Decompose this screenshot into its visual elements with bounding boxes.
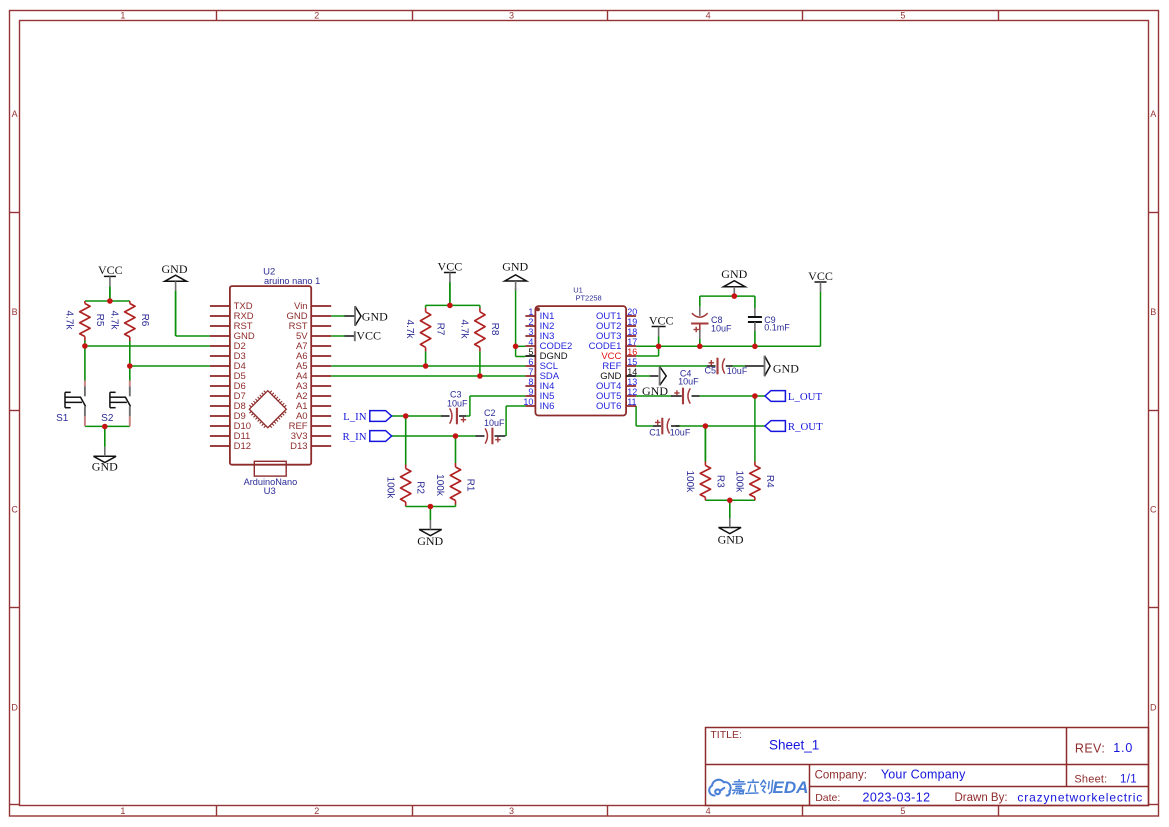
svg-text:10: 10 [523, 397, 533, 407]
svg-text:Drawn By:: Drawn By: [955, 792, 1008, 804]
svg-text:4.7k: 4.7k [108, 311, 119, 331]
svg-text:10uF: 10uF [678, 377, 699, 387]
svg-text:4.7k: 4.7k [459, 320, 470, 340]
svg-text:D12: D12 [234, 441, 251, 452]
svg-text:Sheet_1: Sheet_1 [769, 738, 819, 753]
svg-text:GND: GND [92, 459, 118, 473]
svg-text:R4: R4 [764, 475, 775, 488]
svg-text:100k: 100k [733, 470, 744, 493]
svg-text:GND: GND [642, 384, 668, 398]
svg-text:2023-03-12: 2023-03-12 [863, 790, 931, 804]
svg-text:4: 4 [706, 11, 711, 21]
svg-text:R6: R6 [139, 314, 150, 327]
svg-text:18: 18 [627, 327, 637, 337]
svg-text:R7: R7 [435, 323, 446, 336]
svg-text:U3: U3 [264, 486, 276, 497]
svg-text:B: B [1150, 307, 1156, 317]
svg-text:GND: GND [417, 534, 443, 548]
svg-text:10uF: 10uF [727, 366, 748, 376]
svg-text:REV:: REV: [1075, 741, 1105, 755]
svg-text:Sheet:: Sheet: [1074, 774, 1107, 786]
svg-text:A: A [1150, 109, 1156, 119]
svg-text:VCC: VCC [98, 263, 123, 277]
svg-text:VCC: VCC [438, 260, 463, 274]
svg-text:11: 11 [627, 397, 636, 407]
svg-text:D: D [11, 702, 18, 712]
svg-text:crazynetworkelectric: crazynetworkelectric [1017, 790, 1143, 804]
svg-text:9: 9 [528, 387, 533, 397]
svg-text:15: 15 [627, 357, 637, 367]
svg-text:R1: R1 [465, 479, 476, 492]
svg-text:R3: R3 [714, 475, 725, 488]
svg-text:A: A [12, 109, 18, 119]
svg-text:1.0: 1.0 [1113, 741, 1133, 755]
svg-text:Date:: Date: [815, 792, 840, 804]
svg-text:100k: 100k [384, 477, 395, 500]
svg-text:S1: S1 [56, 413, 69, 424]
svg-text:B: B [12, 307, 18, 317]
svg-text:100k: 100k [434, 474, 445, 497]
svg-text:S2: S2 [101, 413, 114, 424]
svg-text:Company:: Company: [815, 770, 867, 782]
svg-text:aruino nano 1: aruino nano 1 [264, 276, 320, 286]
svg-text:GND: GND [162, 262, 188, 276]
svg-text:GND: GND [721, 267, 747, 281]
svg-text:R8: R8 [489, 323, 500, 336]
svg-text:16: 16 [627, 347, 637, 357]
svg-text:2: 2 [314, 806, 319, 816]
svg-text:L_IN: L_IN [343, 411, 367, 423]
svg-text:Your Company: Your Company [881, 768, 966, 782]
svg-text:1: 1 [120, 11, 125, 21]
svg-text:20: 20 [627, 307, 637, 317]
svg-text:10uF: 10uF [711, 324, 732, 334]
svg-text:C5: C5 [705, 366, 717, 376]
svg-text:EDA: EDA [773, 778, 809, 797]
svg-text:1: 1 [120, 806, 125, 816]
svg-text:7: 7 [528, 367, 533, 377]
svg-text:TITLE:: TITLE: [710, 729, 742, 741]
svg-text:IN6: IN6 [540, 401, 555, 412]
svg-text:C2: C2 [484, 408, 496, 418]
svg-text:3: 3 [509, 11, 514, 21]
svg-text:10uF: 10uF [447, 398, 468, 408]
svg-text:3: 3 [509, 806, 514, 816]
svg-text:1: 1 [528, 307, 533, 317]
svg-text:GND: GND [718, 532, 744, 546]
svg-text:VCC: VCC [356, 329, 381, 343]
svg-text:5: 5 [900, 806, 905, 816]
svg-text:1/1: 1/1 [1120, 773, 1137, 785]
svg-text:3: 3 [528, 327, 533, 337]
svg-text:R2: R2 [415, 481, 426, 494]
svg-text:R_OUT: R_OUT [788, 421, 823, 433]
svg-text:100k: 100k [684, 470, 695, 493]
svg-text:10uF: 10uF [670, 427, 691, 437]
svg-text:4.7k: 4.7k [64, 311, 75, 331]
svg-text:R5: R5 [94, 314, 105, 327]
svg-text:5: 5 [900, 11, 905, 21]
svg-text:GND: GND [362, 309, 388, 323]
svg-text:19: 19 [627, 317, 637, 327]
svg-text:13: 13 [627, 377, 637, 387]
svg-text:C: C [1150, 505, 1157, 515]
svg-text:GND: GND [773, 361, 799, 375]
svg-text:4: 4 [706, 806, 711, 816]
svg-text:C1: C1 [649, 427, 661, 437]
svg-text:GND: GND [502, 260, 528, 274]
svg-text:4: 4 [528, 337, 533, 347]
svg-text:8: 8 [528, 377, 533, 387]
svg-text:5: 5 [528, 347, 533, 357]
svg-text:0.1mF: 0.1mF [764, 323, 790, 333]
svg-text:D13: D13 [290, 441, 307, 452]
svg-text:4.7k: 4.7k [404, 320, 415, 340]
svg-text:14: 14 [627, 367, 637, 377]
svg-text:PT2258: PT2258 [575, 294, 601, 303]
svg-text:R_IN: R_IN [343, 431, 367, 443]
svg-text:12: 12 [627, 387, 637, 397]
svg-text:OUT6: OUT6 [596, 401, 621, 412]
svg-text:D: D [1150, 702, 1157, 712]
svg-text:10uF: 10uF [484, 418, 505, 428]
svg-text:VCC: VCC [808, 269, 833, 283]
svg-text:L_OUT: L_OUT [788, 391, 823, 403]
svg-text:2: 2 [528, 317, 533, 327]
svg-text:6: 6 [528, 357, 533, 367]
svg-text:C: C [11, 505, 18, 515]
svg-text:17: 17 [627, 337, 637, 347]
svg-text:VCC: VCC [649, 313, 674, 327]
svg-text:2: 2 [314, 11, 319, 21]
